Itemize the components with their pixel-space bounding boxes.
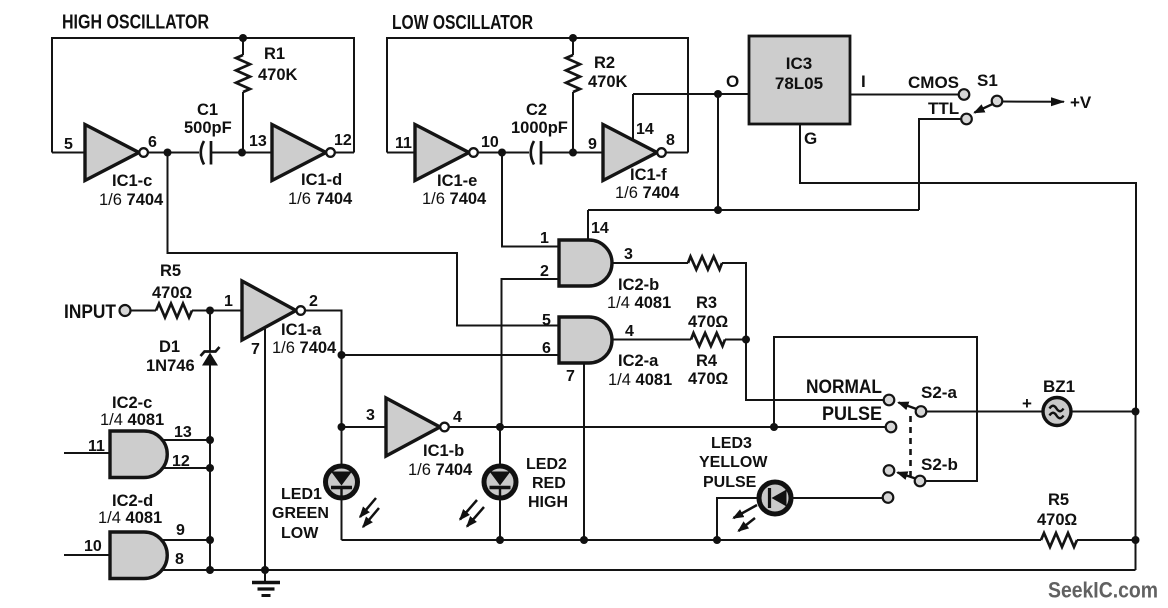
op-amp IC1-f (inverter 1/6 7404)	[588, 121, 680, 202]
wire: high osc signal to IC2-a pin 5	[168, 153, 560, 330]
svg-text:1000pF: 1000pF	[511, 119, 568, 137]
node: junction pin9	[206, 536, 214, 544]
svg-text:1: 1	[224, 293, 233, 310]
svg-text:CMOS: CMOS	[908, 73, 959, 92]
node: junction LED3 rail	[713, 536, 721, 544]
node: junction IC1-b input / LED1	[338, 423, 346, 431]
wire: IC2-d pin 10 stub	[64, 554, 110, 556]
svg-text:11: 11	[395, 135, 412, 152]
node: junction ground stem	[261, 566, 269, 574]
svg-text:3: 3	[366, 407, 375, 424]
svg-text:IC1-a: IC1-a	[281, 321, 322, 339]
ground	[252, 570, 280, 596]
wire: right bus down to rails	[1135, 412, 1137, 571]
svg-text:2: 2	[309, 293, 318, 310]
node: G pin label	[804, 129, 817, 148]
op-amp IC1-e (inverter 1/6 7404)	[395, 125, 499, 209]
svg-text:IC2-d: IC2-d	[112, 492, 153, 510]
resistor R2 470K	[566, 34, 628, 153]
resistor R5 470 ohm (input)	[131, 262, 243, 318]
node: LOW OSCILLATOR title	[392, 12, 533, 34]
svg-text:C1: C1	[197, 101, 218, 119]
svg-text:RED: RED	[532, 475, 566, 492]
resistor R5 470 ohm (bottom)	[1037, 491, 1136, 547]
wire: IC1-a pin 7 to ground	[264, 329, 266, 570]
wire: R3 to NORMAL contact	[722, 263, 884, 400]
svg-text:1/4 4081: 1/4 4081	[98, 509, 162, 527]
svg-text:O: O	[726, 72, 739, 91]
wire: IC2-b pin 14 supply	[588, 210, 609, 240]
wire: IC3 input I to CMOS contact	[850, 94, 959, 96]
svg-text:LED3: LED3	[711, 435, 752, 452]
node: junction pin7 rail	[580, 536, 588, 544]
svg-text:1/6 7404: 1/6 7404	[408, 461, 473, 479]
wire: IC1-f pin 14 up to 5V rail	[632, 94, 634, 140]
svg-text:IC2-b: IC2-b	[618, 276, 659, 294]
svg-text:470K: 470K	[258, 66, 298, 84]
svg-text:470K: 470K	[588, 73, 628, 91]
svg-text:+: +	[1022, 394, 1032, 413]
wire: IC1-a output down to IC1-b input	[305, 311, 342, 428]
wire: IC2-c pin 13 to bus	[162, 439, 210, 441]
svg-text:14: 14	[591, 220, 609, 237]
svg-text:IC1-d: IC1-d	[301, 171, 342, 189]
svg-text:1/6 7404: 1/6 7404	[288, 190, 353, 208]
switch S2-a pivot	[916, 383, 958, 417]
svg-text:1/6 7404: 1/6 7404	[422, 190, 487, 208]
svg-text:4: 4	[625, 323, 634, 340]
svg-text:14: 14	[636, 121, 654, 138]
svg-text:HIGH OSCILLATOR: HIGH OSCILLATOR	[62, 12, 209, 34]
svg-text:10: 10	[84, 538, 102, 555]
svg-text:13: 13	[174, 424, 192, 441]
svg-text:TTL: TTL	[928, 99, 959, 118]
wire: S2-a common to buzzer	[927, 411, 1044, 413]
wire: regulator output O line	[633, 93, 749, 95]
svg-text:IC2-a: IC2-a	[618, 352, 659, 370]
node: junction IC1-e output	[498, 149, 506, 157]
wire: box to IC1-e input	[387, 152, 415, 154]
svg-text:1/4 4081: 1/4 4081	[607, 294, 671, 312]
switch S2-a arm arrow	[899, 403, 917, 410]
svg-text:8: 8	[666, 132, 675, 149]
svg-text:4: 4	[453, 409, 462, 426]
wire: IC2-a pin 7 down to LED rail	[583, 363, 585, 540]
switch S2-a NORMAL contact	[806, 377, 894, 405]
svg-text:6: 6	[148, 134, 157, 151]
svg-text:7: 7	[566, 368, 575, 385]
node: SeekIC watermark	[1048, 578, 1158, 603]
svg-text:470Ω: 470Ω	[688, 313, 729, 331]
svg-text:LOW: LOW	[281, 525, 319, 542]
switch S2-b lower contact	[883, 492, 894, 503]
svg-text:LOW OSCILLATOR: LOW OSCILLATOR	[392, 12, 533, 34]
node: junction pin8 / bus bottom	[206, 566, 214, 574]
AND gate IC2-c 1/4 4081	[88, 394, 192, 478]
node: I pin label	[861, 72, 866, 91]
svg-text:1/6 7404: 1/6 7404	[272, 339, 337, 357]
resistor R3 470 ohm	[688, 257, 729, 332]
node: junction pin12	[206, 464, 214, 472]
wire: buzzer to right bus	[1072, 411, 1136, 413]
svg-text:78L05: 78L05	[775, 74, 823, 93]
svg-text:12: 12	[334, 132, 352, 149]
wire: LED cathode rail	[342, 539, 1042, 541]
svg-text:1N746: 1N746	[146, 357, 195, 375]
svg-text:9: 9	[588, 136, 597, 153]
svg-text:R2: R2	[594, 54, 615, 72]
svg-text:PULSE: PULSE	[822, 404, 882, 425]
node: junction R3/R4	[742, 336, 750, 344]
svg-text:+V: +V	[1070, 93, 1092, 112]
wire: IC2-d pin 9 to bus	[162, 539, 210, 541]
svg-text:R5: R5	[160, 262, 181, 280]
wire: TTL contact to 5V rail	[919, 119, 961, 210]
svg-text:13: 13	[249, 133, 267, 150]
op-amp IC1-d (inverter 1/6 7404)	[249, 125, 353, 209]
wire: IC3 ground G to right bus	[800, 124, 1136, 412]
AND gate IC2-a 1/4 4081	[559, 317, 672, 389]
svg-text:10: 10	[481, 134, 499, 151]
svg-text:INPUT: INPUT	[64, 302, 116, 323]
node: HIGH OSCILLATOR title	[62, 12, 209, 34]
node: junction C2 / R2 bottom	[569, 149, 577, 157]
svg-text:IC2-c: IC2-c	[112, 394, 152, 412]
svg-text:YELLOW: YELLOW	[699, 454, 768, 471]
capacitor C1 500pF	[184, 101, 232, 165]
wire: IC2-c pin 12 to bus	[162, 467, 210, 469]
svg-text:NORMAL: NORMAL	[806, 377, 882, 398]
svg-text:5: 5	[542, 312, 551, 329]
svg-text:LED2: LED2	[526, 456, 567, 473]
node: junction 5V rail	[714, 206, 722, 214]
node: junction IC1-c output	[164, 149, 172, 157]
AND gate IC2-b 1/4 4081	[559, 240, 671, 312]
svg-text:D1: D1	[159, 338, 180, 356]
LED1 light arrows	[360, 498, 379, 527]
svg-text:1/6 7404: 1/6 7404	[99, 191, 164, 209]
resistor R1 470K	[236, 34, 298, 153]
wire: IC1-a output to IC2-a pin 6	[342, 340, 560, 357]
switch S2-b upper contact	[884, 455, 958, 476]
svg-text:470Ω: 470Ω	[688, 370, 729, 388]
svg-text:G: G	[804, 129, 817, 148]
wire: ground rail	[162, 569, 1136, 571]
wire: box to IC1-c input	[52, 152, 85, 154]
svg-text:R1: R1	[264, 45, 285, 63]
wire: pulse net IC1-b output to PULSE contact	[449, 426, 886, 428]
wire: IC2-b output to R3	[612, 262, 688, 264]
svg-text:8: 8	[175, 551, 184, 568]
wire: low oscillator feedback loop box	[387, 38, 688, 153]
LED3 light arrows	[734, 505, 758, 531]
op-amp IC1-b (inverter 1/6 7404)	[366, 398, 473, 479]
resistor R4 470 ohm	[688, 333, 729, 388]
wire: S2-b common to pulse net	[774, 337, 977, 481]
node: junction rail / right bus	[1132, 536, 1140, 544]
svg-text:IC1-f: IC1-f	[630, 166, 667, 184]
op-amp IC1-a (inverter 1/6 7404)	[224, 281, 337, 358]
svg-text:I: I	[861, 72, 866, 91]
node: junction pulse net / S2-b link	[770, 423, 778, 431]
LED1 green	[272, 427, 358, 542]
svg-text:2: 2	[540, 263, 549, 280]
node: junction O rail	[714, 90, 722, 98]
wire: S1 to +V arrow	[1003, 93, 1092, 112]
svg-text:R4: R4	[696, 352, 718, 370]
node: junction input node	[206, 307, 214, 315]
svg-text:S2-b: S2-b	[921, 455, 958, 474]
AND gate IC2-d 1/4 4081	[84, 492, 185, 579]
switch S2-b pivot	[915, 476, 926, 487]
node: junction pulse net / LED2	[496, 423, 504, 431]
svg-text:SeekIC.com: SeekIC.com	[1048, 578, 1158, 603]
svg-text:1/4 4081: 1/4 4081	[100, 411, 164, 429]
wire: IC1-e junction down to IC2-b pin 1	[502, 153, 559, 248]
wire: IC2-a output to R4	[612, 339, 691, 341]
svg-text:S1: S1	[977, 71, 998, 90]
LED2 red	[484, 427, 568, 540]
svg-text:IC3: IC3	[786, 54, 812, 73]
svg-text:470Ω: 470Ω	[152, 284, 193, 302]
switch S1 CMOS contact	[908, 73, 969, 100]
switch S1 TTL contact	[928, 99, 972, 124]
wire: R4 to junction	[725, 339, 746, 341]
svg-text:IC1-e: IC1-e	[437, 172, 477, 190]
wire: IC1-e output to C2	[478, 152, 529, 154]
svg-text:R3: R3	[696, 294, 717, 312]
svg-text:R5: R5	[1048, 491, 1069, 509]
svg-text:500pF: 500pF	[184, 119, 232, 137]
svg-text:IC1-b: IC1-b	[423, 442, 464, 460]
svg-text:3: 3	[624, 246, 633, 263]
svg-text:PULSE: PULSE	[703, 474, 757, 491]
capacitor C2 1000pF	[511, 101, 568, 165]
node: O pin label	[726, 72, 739, 91]
svg-text:470Ω: 470Ω	[1037, 511, 1078, 529]
svg-text:5: 5	[64, 136, 73, 153]
wire: O node down to 5V distribution rail	[717, 94, 719, 210]
switch S2-b arm arrow	[898, 473, 916, 479]
node: junction C1 / R1 bottom	[238, 149, 246, 157]
wire: IC2-c pin 11 stub	[64, 452, 110, 454]
wire: IC1-c output to C1	[148, 152, 199, 154]
switch S2-a PULSE contact	[822, 404, 896, 432]
LED3 yellow	[699, 435, 883, 540]
node: junction pin13	[206, 436, 214, 444]
wire: C1 to IC1-d input	[211, 152, 272, 154]
switch S1 arm arrow to TTL	[975, 104, 994, 113]
svg-text:BZ1: BZ1	[1043, 377, 1075, 396]
svg-text:LED1: LED1	[281, 486, 322, 503]
wire: C2 to IC1-f input	[541, 152, 603, 154]
node: INPUT terminal	[64, 302, 131, 323]
svg-text:6: 6	[542, 340, 551, 357]
op-amp IC1-c (inverter 1/6 7404)	[64, 125, 164, 210]
svg-text:S2-a: S2-a	[921, 383, 957, 402]
svg-text:C2: C2	[526, 101, 547, 119]
wire: 5V distribution rail	[588, 209, 919, 211]
IC3 78L05 regulator	[749, 36, 850, 124]
svg-text:1/4 4081: 1/4 4081	[608, 371, 672, 389]
node: junction buzzer / right bus	[1132, 408, 1140, 416]
svg-text:IC1-c: IC1-c	[112, 172, 152, 190]
svg-text:7: 7	[251, 341, 260, 358]
svg-text:HIGH: HIGH	[528, 494, 568, 511]
buzzer BZ1	[1022, 377, 1075, 426]
wire: S2 mechanical link (dashed)	[909, 416, 912, 476]
wire: IC1-d output to box edge	[335, 152, 354, 154]
switch S1 pivot	[977, 71, 1002, 106]
node: junction LED2 rail	[496, 536, 504, 544]
node: junction IC1-a out / pin6	[338, 351, 346, 359]
wire: high oscillator feedback loop box	[52, 38, 354, 153]
LED2 light arrows	[460, 500, 484, 527]
svg-text:1/6 7404: 1/6 7404	[615, 184, 680, 202]
diode D1 1N746 zener	[146, 311, 220, 571]
svg-text:1: 1	[540, 230, 549, 247]
svg-text:9: 9	[176, 522, 185, 539]
wire: IC1-b input	[342, 426, 387, 428]
wire: IC1-f output to box edge	[666, 152, 688, 154]
svg-text:GREEN: GREEN	[272, 505, 329, 522]
wire: IC2-b pin 2 down to pulse net	[502, 263, 560, 427]
